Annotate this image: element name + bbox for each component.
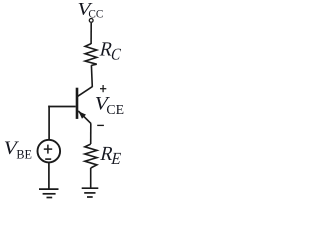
plus sign (VBE source)	[44, 148, 52, 150]
wire base to VBE source	[48, 106, 50, 140]
emitter arrowhead	[78, 111, 86, 119]
collector lead	[78, 87, 93, 97]
base wire	[48, 106, 75, 108]
svg-text:BE: BE	[16, 147, 32, 161]
resistor RC	[85, 44, 97, 66]
emitter lead	[78, 111, 91, 123]
resistor RE	[85, 144, 97, 168]
wire Re to ground	[90, 168, 92, 188]
wire emitter to Re	[90, 123, 92, 144]
plus sign (VCE)	[100, 88, 106, 90]
svg-text:CE: CE	[106, 102, 124, 117]
minus sign (VBE source)	[45, 158, 51, 160]
wire Vcc to Rc	[90, 23, 92, 44]
ground (left)	[39, 188, 59, 190]
wire VBE source to ground	[48, 163, 50, 189]
transistor Q1 base bar	[76, 88, 79, 119]
minus sign (VCE)	[97, 124, 104, 126]
voltage source VBE	[38, 140, 61, 163]
ground (right)	[82, 187, 99, 189]
node Vcc terminal	[89, 19, 93, 23]
wire Rc to collector	[90, 65, 93, 87]
